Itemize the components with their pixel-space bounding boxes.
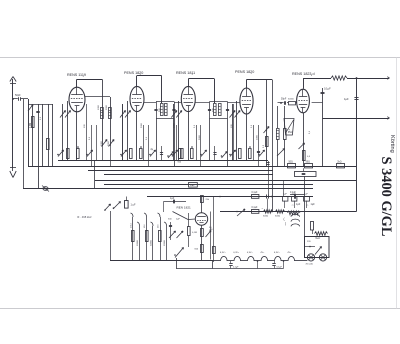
svg-text:0,3M: 0,3M (30, 123, 32, 128)
wire (76, 112, 78, 161)
label r (174, 122, 176, 128)
capacitor mark (257, 152, 260, 153)
capacitor Cf2 (272, 261, 282, 269)
resistor 2k (337, 162, 345, 168)
coil L5 (276, 106, 279, 167)
coil mark 1 (292, 203, 301, 207)
wire (210, 212, 212, 260)
label r (251, 124, 253, 128)
svg-text:4V 0,2A: 4V 0,2A (306, 263, 314, 266)
capacitor Ca 50pF (13, 94, 28, 101)
wire (210, 197, 214, 263)
label fil (220, 252, 226, 254)
label r (213, 108, 215, 112)
capacitor C2 1uF (344, 97, 359, 101)
node antenna tap (12, 98, 14, 100)
tube V3 RENS 1811 (176, 71, 195, 111)
label r (289, 128, 291, 132)
wire bus g (23, 188, 313, 190)
resistor R21 (288, 211, 301, 215)
svg-text:REN 1821: REN 1821 (177, 206, 192, 210)
resistor 50ohm (288, 162, 296, 168)
label r (194, 124, 196, 128)
variable capacitor CV3 (171, 101, 182, 161)
resistor Rmax (189, 183, 198, 188)
wire (196, 125, 198, 161)
svg-text:6,3V+: 6,3V+ (233, 252, 239, 254)
svg-text:1000: 1000 (98, 104, 100, 110)
capacitor C8 0,1uF (252, 192, 259, 199)
svg-text:0,1M: 0,1M (192, 232, 197, 234)
wire (266, 161, 269, 195)
wire (176, 125, 178, 161)
resistor R1 (30, 117, 34, 129)
label fil (233, 252, 239, 254)
transformer TR1 (305, 237, 330, 258)
tube V2 PENS 1820 (124, 71, 144, 111)
variable capacitor CV2 (120, 101, 131, 161)
components under V2 (120, 146, 155, 158)
wire bus b (28, 166, 356, 168)
wire (77, 79, 103, 87)
tube V4 PENS 1820 (235, 70, 254, 114)
svg-text:1µF: 1µF (311, 203, 316, 206)
svg-text:50Ω: 50Ω (306, 162, 311, 164)
tube V5 RENS 1823d (292, 72, 315, 113)
label r (89, 136, 91, 140)
components under V1 (57, 146, 92, 158)
wire (91, 125, 93, 167)
filament chain (210, 256, 307, 261)
wire (272, 80, 274, 212)
wire (283, 260, 285, 268)
wire (233, 104, 235, 161)
wire row212 (220, 211, 357, 213)
wire bus e (95, 180, 356, 182)
svg-text:Körting: Körting (389, 135, 395, 153)
arrow out 2 (387, 117, 389, 120)
label r (84, 124, 86, 128)
label r (257, 134, 259, 140)
label r (199, 134, 201, 140)
pilot lamp LA1 (306, 254, 315, 266)
switch S4 (113, 202, 121, 210)
svg-text:1µF: 1µF (344, 97, 349, 101)
resistor R9 (287, 99, 297, 105)
resistor R22 (311, 222, 314, 235)
svg-text:1µF: 1µF (170, 197, 175, 200)
wire return (176, 261, 284, 269)
wire (137, 76, 162, 104)
svg-text:0,1µF: 0,1µF (252, 192, 259, 194)
wire (323, 118, 389, 120)
svg-text:6,3V+: 6,3V+ (220, 252, 226, 254)
wire (290, 194, 305, 196)
node start (216, 196, 273, 198)
wire cathode V5 (299, 113, 311, 167)
resistor Rc4 (158, 213, 162, 261)
wire (304, 176, 306, 236)
node (356, 77, 358, 79)
wire (122, 104, 124, 161)
wire (356, 78, 358, 212)
wire (176, 258, 178, 269)
svg-text:4µF: 4µF (304, 193, 308, 195)
capacitor block 1uF a (283, 193, 297, 201)
capacitor Cg (164, 197, 187, 212)
wire (94, 161, 96, 189)
wire (32, 106, 34, 166)
coil L2 (85, 97, 112, 147)
resistor R7 (263, 137, 268, 149)
wire (143, 125, 145, 161)
svg-text:300Ω: 300Ω (275, 216, 280, 218)
switch S4b (104, 204, 110, 211)
resistor Rc3 (151, 222, 154, 261)
wire (23, 99, 25, 189)
resistor R23 (315, 232, 328, 240)
svg-text:3000: 3000 (108, 140, 110, 146)
resistor Rc2 (144, 213, 148, 261)
resistor R8 (284, 106, 294, 167)
coil L1 (98, 79, 104, 146)
svg-text:2kΩ: 2kΩ (337, 162, 341, 164)
svg-text:50pF: 50pF (281, 98, 287, 100)
arrow out 1 (387, 77, 389, 80)
wire (201, 197, 203, 213)
wire (258, 125, 260, 167)
coil L6 trapezoid (284, 119, 294, 136)
resistor R18 (195, 229, 204, 253)
wire (253, 125, 255, 161)
svg-text:1µF: 1µF (292, 193, 296, 195)
coil mark 2 (306, 203, 315, 207)
svg-text:30000: 30000 (288, 99, 295, 101)
capacitor C9 (267, 195, 269, 212)
svg-text:1000: 1000 (174, 122, 176, 128)
svg-text:0,9V+: 0,9V+ (247, 252, 253, 254)
wire (28, 104, 53, 106)
resistor Rc1 (137, 222, 140, 261)
svg-text:IF · 468 kHz: IF · 468 kHz (77, 215, 92, 219)
label fil (287, 252, 292, 254)
capacitor block 4uF (304, 193, 310, 201)
wire (42, 104, 44, 166)
wire bus a (58, 160, 268, 162)
svg-text:1µF: 1µF (283, 193, 287, 195)
wire (257, 260, 259, 268)
pilot lamp LA2 (319, 254, 326, 261)
svg-text:6,3V+: 6,3V+ (274, 252, 280, 254)
tube V1 RENS 1119 (67, 73, 86, 112)
resistor R16 (188, 213, 198, 247)
switch S1 (28, 105, 33, 112)
label Koerting (389, 135, 395, 153)
label (40, 116, 42, 120)
wire (103, 146, 111, 167)
wire bus low (110, 260, 212, 262)
wire (303, 78, 305, 89)
connector plug (42, 186, 49, 192)
resistor R24 (210, 229, 216, 254)
svg-text:2000: 2000 (106, 104, 108, 110)
wire (304, 78, 389, 80)
wire (246, 114, 248, 161)
lever AVC (264, 127, 270, 134)
wire (148, 125, 150, 167)
wire bus c (88, 170, 273, 172)
label r (159, 108, 161, 112)
svg-text:10000: 10000 (164, 239, 166, 246)
resistor R19 (263, 210, 273, 218)
wire (283, 180, 285, 197)
resistor R20 (275, 210, 285, 218)
resistor Rc0 (131, 213, 135, 261)
switch S5 (174, 248, 183, 258)
svg-text:0,1µF: 0,1µF (252, 207, 259, 209)
wire (110, 211, 112, 261)
label fil (247, 252, 253, 254)
wire grid diag (173, 212, 196, 220)
node (280, 102, 282, 104)
label S 3400 G/GL (378, 157, 394, 237)
svg-text:5000: 5000 (141, 122, 143, 128)
wire (200, 125, 202, 167)
capacitor C11 0,1uF (252, 206, 264, 213)
variable capacitor CV4 (230, 101, 241, 161)
tube V6 REN 1821 (177, 206, 208, 226)
capacitor block C4 (295, 168, 317, 176)
svg-text:10000: 10000 (137, 239, 139, 246)
capacitor C10 (290, 192, 297, 199)
svg-text:0,1µF: 0,1µF (324, 87, 331, 91)
resistor Rt (331, 76, 347, 80)
switch S2 (101, 140, 107, 147)
wire (312, 87, 332, 167)
cluster left of V6 (168, 219, 183, 241)
wire (86, 104, 88, 161)
svg-text:1 µF: 1 µF (131, 204, 137, 207)
wire (188, 112, 190, 161)
label r (309, 130, 311, 134)
svg-text:2µF: 2µF (176, 219, 180, 221)
wire (285, 201, 307, 208)
resistor Rc5 (164, 222, 167, 261)
resistor R2 (47, 139, 50, 150)
resistor R17 (201, 196, 210, 203)
variable capacitor CV1 (60, 101, 71, 161)
label fil (274, 252, 280, 254)
wire (28, 99, 30, 166)
wire bus f (104, 184, 313, 186)
lever conv (277, 149, 285, 157)
wire (96, 125, 98, 161)
label r (141, 122, 143, 128)
IF transformer IF3 (195, 102, 240, 167)
label r (231, 124, 233, 128)
coil L7 (284, 214, 300, 226)
svg-text:1000: 1000 (101, 140, 103, 146)
svg-text:4Ω: 4Ω (210, 229, 213, 231)
capacitor C6 1uF (125, 197, 137, 209)
svg-text:S 3400 G/GL: S 3400 G/GL (378, 157, 394, 237)
wire (188, 79, 214, 104)
IF transformer IF2 (144, 102, 181, 167)
wire (136, 112, 138, 161)
wire (201, 225, 203, 260)
svg-text:1µF: 1µF (296, 203, 301, 206)
wire (52, 104, 54, 166)
capacitor C7 (206, 227, 213, 237)
svg-text:300Ω: 300Ω (263, 216, 268, 218)
svg-text:50pF: 50pF (15, 94, 21, 97)
svg-text:~: ~ (262, 206, 264, 210)
wire (247, 80, 273, 167)
label fil (260, 252, 265, 254)
wire row196 (147, 196, 313, 198)
capacitor C3 (321, 93, 325, 94)
capacitor Cf1 (229, 261, 239, 269)
capacitor C5 50pF (278, 98, 287, 104)
switch S6 (236, 209, 245, 216)
wire (36, 104, 39, 189)
ground arrow (10, 168, 16, 178)
switch S3 (108, 140, 114, 147)
components under V4 (229, 146, 264, 158)
svg-text:30000: 30000 (151, 239, 153, 246)
wire (48, 104, 50, 166)
svg-text:50Ω: 50Ω (289, 162, 294, 164)
label IF (77, 215, 92, 219)
wire bus d (104, 174, 273, 176)
components under V3 (171, 146, 206, 163)
label r (146, 136, 148, 140)
antenna (10, 77, 16, 169)
resistor 50ohm b (305, 162, 313, 168)
